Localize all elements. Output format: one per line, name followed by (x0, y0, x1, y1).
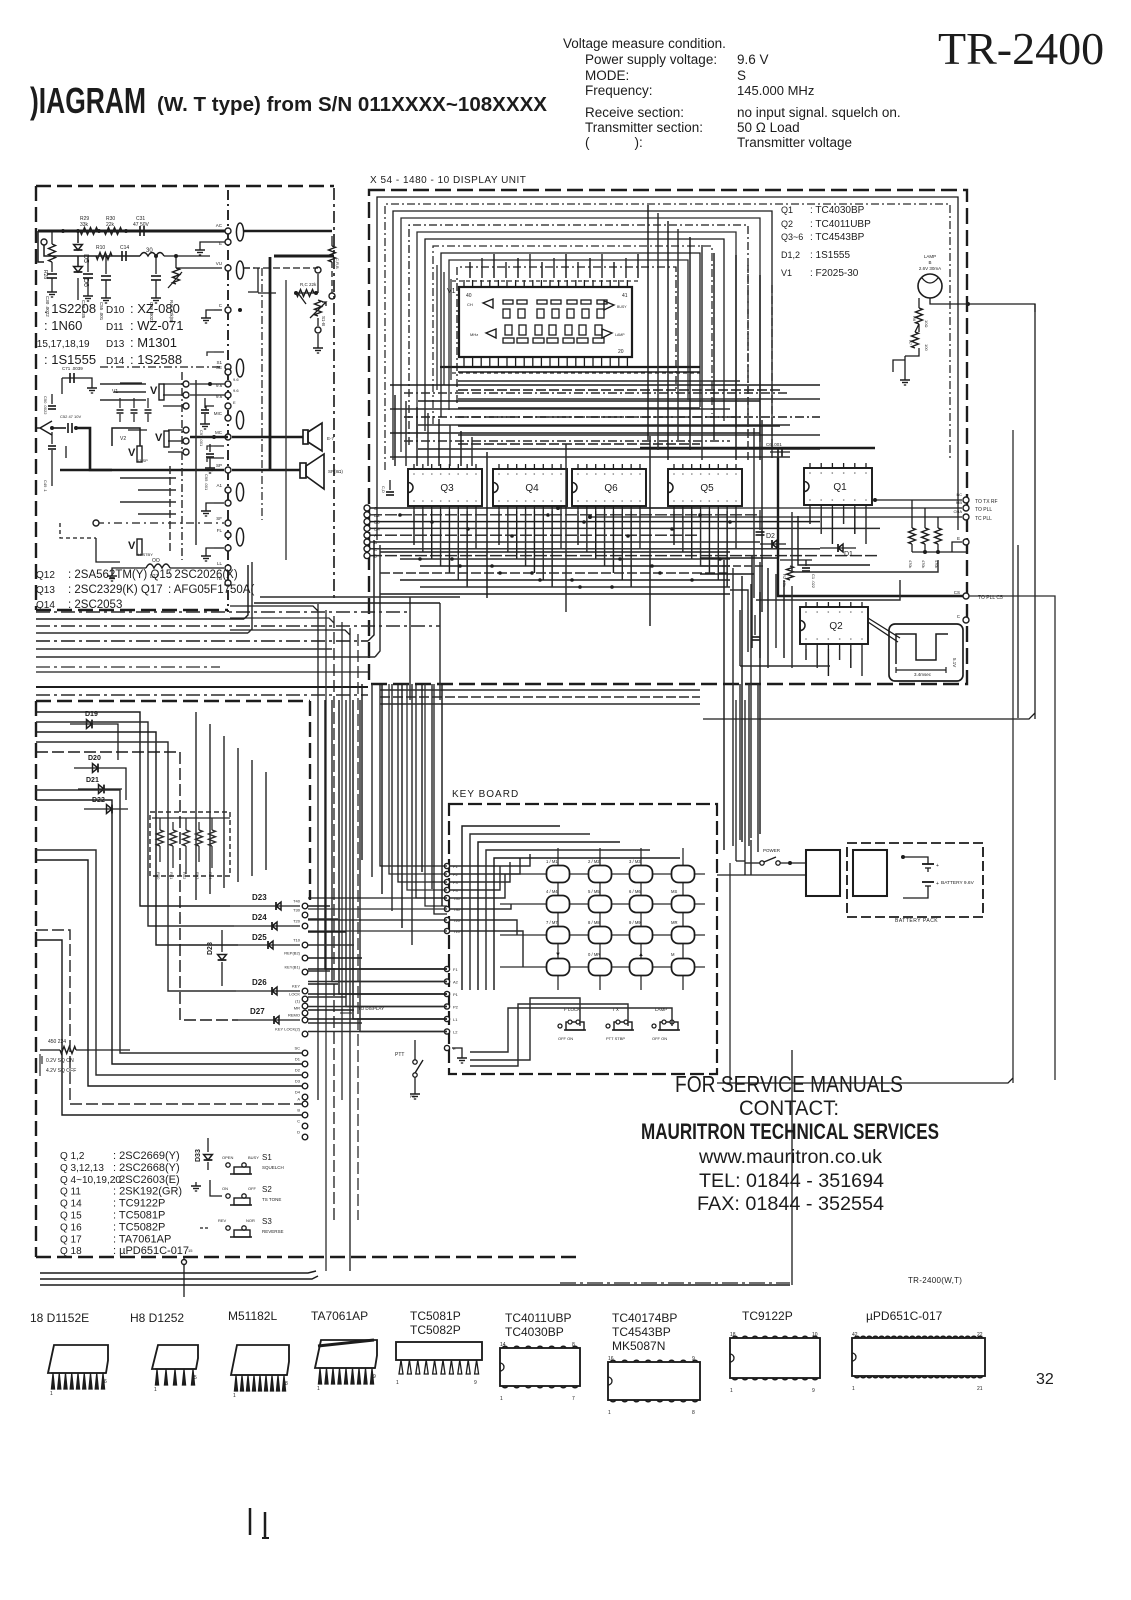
svg-text:B: B (297, 1108, 300, 1113)
svg-text:°: ° (726, 473, 728, 479)
svg-text:OO: OO (152, 558, 160, 564)
wire row to terminal VU (176, 267, 222, 269)
section A right dash-dot border (333, 188, 335, 600)
speaker symbol (300, 463, 306, 478)
svg-text:KEY(B1): KEY(B1) (284, 965, 300, 970)
svg-text:www.mauritron.co.uk: www.mauritron.co.uk (698, 1147, 883, 1168)
svg-text:40: 40 (466, 293, 472, 299)
junction dots on supply (61, 229, 65, 233)
resistor vertical (172, 822, 174, 830)
svg-text:: 2SC2026(X): : 2SC2026(X) (168, 569, 238, 581)
svg-text:F1: F1 (453, 967, 458, 972)
lamp branch left (905, 348, 919, 356)
wire main supply thick (38, 230, 228, 233)
svg-text:BATTERY 9.6V: BATTERY 9.6V (941, 880, 975, 886)
svg-text:: 2SC2053: : 2SC2053 (68, 599, 122, 611)
svg-text:8: 8 (572, 1342, 575, 1348)
vertical stub below box (183, 1257, 185, 1297)
registration marks (249, 1508, 252, 1535)
svg-text:°: ° (560, 473, 562, 479)
key button 5 / M5 (589, 896, 612, 913)
svg-text:C,R,B: C,R,B (335, 258, 340, 269)
package SIP TA7061AP with tab (315, 1340, 377, 1368)
svg-text:TS TONE: TS TONE (262, 1197, 281, 1202)
waveform time arrows (896, 667, 946, 673)
svg-text:°: ° (604, 500, 606, 506)
power feed wires from top (735, 700, 737, 861)
svg-text:°: ° (831, 499, 833, 505)
svg-text:°: ° (431, 473, 433, 479)
svg-text:6 / M6: 6 / M6 (629, 889, 641, 894)
resistor R6 below lamp (918, 298, 920, 308)
svg-text:°: ° (854, 472, 856, 478)
svg-text:°: ° (431, 500, 433, 506)
svg-text:°: ° (805, 638, 807, 644)
svg-text:°: ° (717, 473, 719, 479)
svg-text:TC4030BP: TC4030BP (505, 1325, 564, 1339)
horizontals above Q2 (700, 557, 778, 559)
resistor vertical (159, 818, 161, 830)
svg-text:C71 .0039: C71 .0039 (62, 366, 83, 371)
svg-text:D10: D10 (106, 305, 125, 316)
svg-text:°: ° (466, 473, 468, 479)
svg-text:TO TX RF: TO TX RF (975, 499, 998, 505)
svg-text:Q 14: Q 14 (60, 1199, 82, 1210)
svg-text:▲: ▲ (638, 952, 644, 958)
wire AC to right (243, 230, 332, 233)
svg-text:°: ° (475, 500, 477, 506)
S switch wires (210, 1180, 222, 1196)
display mesh dash rows lower (390, 384, 820, 386)
terminal column A-D (302, 1101, 308, 1107)
section A misc terminals (207, 352, 214, 356)
svg-text:CONTACT:: CONTACT: (739, 1097, 839, 1120)
horizontal wire through service text (717, 1078, 1013, 1083)
svg-text:L2: L2 (453, 1030, 458, 1035)
upper horizontals into display (260, 596, 460, 598)
key button 3 / M3 (630, 866, 653, 883)
svg-text:°: ° (850, 611, 852, 617)
svg-text:NOR: NOR (246, 1218, 255, 1223)
svg-text:C14: C14 (120, 245, 129, 251)
connector oval VU (236, 261, 243, 279)
wire to CS terminal (969, 596, 1055, 1080)
svg-text:°: ° (839, 638, 841, 644)
svg-text:: µPD651C-017: : µPD651C-017 (113, 1245, 189, 1257)
svg-text:AC: AC (216, 223, 223, 228)
svg-text:°: ° (498, 473, 500, 479)
svg-text:+: + (936, 863, 939, 869)
small RC cluster under D1 (787, 566, 794, 580)
svg-text:: 1S1555: : 1S1555 (810, 250, 850, 261)
right edge terminals (963, 497, 969, 503)
capacitor C95 (209, 444, 211, 452)
svg-text:D: D (297, 1130, 300, 1135)
svg-text:D25: D25 (252, 933, 267, 942)
svg-text:18: 18 (730, 1332, 736, 1338)
svg-text:7: 7 (572, 1396, 575, 1402)
svg-text:: TC4011UBP: : TC4011UBP (810, 219, 871, 230)
svg-text:5 / M5: 5 / M5 (588, 889, 600, 894)
lamp wire right (930, 298, 1035, 312)
svg-text:°: ° (457, 500, 459, 506)
svg-text:: AFG05F1750A(: : AFG05F1750A( (168, 584, 254, 596)
svg-text:°: ° (533, 473, 535, 479)
svg-text:8 / M8: 8 / M8 (588, 920, 600, 925)
svg-text:D28: D28 (207, 942, 214, 955)
key button 7 / M7 (547, 927, 570, 944)
svg-text:°: ° (708, 500, 710, 506)
inner vertical drop wires (469, 262, 471, 278)
package SIP D1152E (48, 1345, 108, 1373)
svg-text:L1: L1 (453, 1017, 458, 1022)
svg-text:°: ° (525, 500, 527, 506)
right vertical pair to service area (1012, 430, 1014, 1083)
svg-text:C,D: C,D (381, 486, 386, 493)
key button ▲ (630, 959, 653, 976)
wires from left terminals to keyboard T row (308, 897, 447, 899)
right bus wires (875, 499, 962, 501)
svg-text:C1 .022: C1 .022 (811, 574, 816, 589)
wires terminals to trunk (308, 905, 330, 907)
package DIP42 (852, 1338, 985, 1376)
svg-text:1: 1 (608, 1410, 611, 1416)
right long wire down from lamp (1034, 304, 1036, 719)
driver IC Q5 (668, 469, 742, 506)
svg-text:°: ° (422, 500, 424, 506)
oval FL (236, 528, 243, 546)
middle band long horizontals (36, 611, 410, 613)
receiver unit dashed border bottom (36, 609, 228, 611)
LCD right arrow row1 (604, 301, 614, 310)
LCD left arrow row2 (486, 329, 496, 338)
svg-text:: WZ-071: : WZ-071 (130, 318, 183, 333)
svg-text:°: ° (700, 473, 702, 479)
key button 1 / M1 (547, 866, 570, 883)
svg-text:S2: S2 (262, 1185, 272, 1194)
svg-text:°: ° (831, 472, 833, 478)
svg-text:°: ° (440, 473, 442, 479)
svg-text:30: 30 (146, 248, 153, 254)
svg-text:Q 3,12,13: Q 3,12,13 (60, 1163, 104, 1174)
svg-text:41: 41 (622, 293, 628, 299)
svg-text:D20: D20 (88, 755, 101, 762)
terminal E2 (225, 403, 231, 409)
svg-text:TC9122P: TC9122P (742, 1309, 793, 1323)
battery cells symbol (922, 863, 934, 865)
capacitor C31 (139, 226, 141, 236)
svg-text:42: 42 (852, 1332, 858, 1338)
resistor network R3 R4 R5 (911, 518, 913, 528)
display inner loops extra (436, 265, 438, 390)
svg-text:TC4543BP: TC4543BP (612, 1325, 671, 1339)
svg-text:1: 1 (852, 1386, 855, 1392)
middle band corner risers (244, 565, 248, 619)
svg-text:450 224: 450 224 (48, 1039, 66, 1045)
key button 8 / M8 (589, 927, 612, 944)
svg-text:14: 14 (500, 1342, 506, 1348)
svg-text:32: 32 (1036, 1371, 1054, 1388)
svg-text:(W. T type) from S/N 011XXXX~1: (W. T type) from S/N 011XXXX~108XXXX (157, 94, 548, 116)
long bus lines to display (36, 671, 368, 673)
svg-text:TC5082P: TC5082P (410, 1323, 461, 1337)
Q2 bottom wires (805, 649, 807, 660)
svg-text:OFF ON: OFF ON (558, 1036, 573, 1041)
waveform scope box (889, 624, 963, 681)
svg-text:°: ° (595, 473, 597, 479)
terminal E bottom (444, 1045, 449, 1050)
package SIP TC5081P (396, 1342, 482, 1360)
svg-text:MB: MB (956, 500, 962, 505)
wire mic chain thick (76, 428, 90, 446)
resistor R right top (331, 236, 333, 246)
svg-text:SQUELCH: SQUELCH (262, 1165, 284, 1170)
transistor V lead row y=256 (44, 242, 140, 256)
dashed box around resistors (150, 812, 230, 876)
wires keyboard to power (717, 874, 745, 876)
key button 9 / M9 (630, 927, 653, 944)
verticals through IC row gaps (486, 452, 488, 598)
svg-text:6: 6 (104, 1379, 107, 1385)
svg-text:: XZ-080: : XZ-080 (130, 301, 180, 316)
svg-text:V2: V2 (120, 436, 126, 442)
svg-text:°: ° (809, 499, 811, 505)
svg-text:D2: D2 (766, 533, 775, 540)
svg-text:SP: SP (216, 463, 222, 468)
svg-text:°: ° (816, 611, 818, 617)
svg-text:4 / M4: 4 / M4 (546, 889, 558, 894)
svg-text:V: V (155, 432, 163, 444)
svg-text:22k: 22k (106, 222, 115, 228)
svg-text:CS: CS (954, 590, 960, 595)
svg-text:KEY BOARD: KEY BOARD (452, 789, 519, 800)
resistor R10 (96, 253, 112, 260)
wire loop around Q1 lower (792, 512, 938, 572)
IC Q2 (800, 607, 868, 644)
svg-text:D24: D24 (252, 913, 267, 922)
svg-text:D27: D27 (250, 1007, 265, 1016)
svg-text:E: E (233, 400, 236, 405)
vertical dash line mid column (261, 268, 263, 520)
svg-text:0 / MR: 0 / MR (588, 952, 600, 957)
svg-text:C52 47 10V: C52 47 10V (60, 414, 81, 419)
package DIP16 (608, 1362, 700, 1400)
svg-text:E: E (957, 536, 960, 541)
svg-text:°: ° (413, 473, 415, 479)
svg-text:°: ° (448, 500, 450, 506)
capacitor C51 (51, 432, 53, 444)
svg-text:MAURITRON TECHNICAL SERVICES: MAURITRON TECHNICAL SERVICES (641, 1119, 939, 1144)
svg-text:1: 1 (50, 1391, 53, 1397)
dash-dot wire under service text (560, 1282, 790, 1284)
svg-text:°: ° (673, 500, 675, 506)
svg-text:Q 15: Q 15 (60, 1211, 82, 1222)
svg-text:B: B (928, 260, 931, 265)
svg-text:20: 20 (618, 349, 624, 355)
svg-text:TC5081P: TC5081P (410, 1309, 461, 1323)
terminal C right (963, 617, 969, 623)
control unit dashed border left (35, 701, 37, 1257)
svg-text:Transmitter voltage: Transmitter voltage (737, 135, 852, 150)
svg-text:°: ° (612, 500, 614, 506)
svg-text:REP(B2): REP(B2) (284, 951, 300, 956)
LCD digits row1 (503, 300, 513, 304)
key button 0 / MR (589, 959, 612, 976)
svg-text:°: ° (516, 473, 518, 479)
mesh horizontal stubs (458, 371, 700, 373)
svg-text:°: ° (577, 473, 579, 479)
svg-text:8: 8 (692, 1410, 695, 1416)
svg-text:Transmitter section:: Transmitter section: (585, 120, 703, 135)
svg-text:P2: P2 (453, 1005, 459, 1010)
section B nested corner wires (36, 712, 230, 906)
svg-text:Q 18: Q 18 (60, 1246, 82, 1257)
vertical bundle left of Q2 (751, 556, 753, 648)
svg-text:LOCK: LOCK (289, 992, 300, 997)
bundle display to power area (723, 560, 725, 850)
regulator box (806, 850, 840, 896)
svg-text:°: ° (850, 638, 852, 644)
svg-text:TC40174BP: TC40174BP (612, 1311, 677, 1325)
vertical line mid column 2 (285, 280, 287, 560)
svg-text:: 2SC2669(Y): : 2SC2669(Y) (113, 1150, 180, 1162)
slide switch body (614, 1022, 632, 1030)
wire V3 loop thick (90, 446, 112, 470)
svg-text:33k: 33k (80, 222, 89, 228)
svg-text:TC4011UBP: TC4011UBP (505, 1311, 571, 1325)
svg-text:D3: D3 (295, 1079, 301, 1084)
LCD top dashed bus (452, 280, 640, 282)
key button blank (672, 866, 695, 883)
svg-text:°: ° (612, 473, 614, 479)
svg-text:°: ° (525, 473, 527, 479)
LCD display module V1 (459, 287, 632, 357)
IC Q1 (804, 468, 872, 505)
section B inner vertical drops (195, 712, 197, 900)
display vertical bundle right of LCD (735, 255, 737, 460)
connector oval AC (236, 223, 243, 241)
V1 stage stub rows (100, 383, 146, 385)
package SIP D1252 (152, 1345, 198, 1369)
svg-text:REMO: REMO (288, 1013, 300, 1018)
svg-text:470k: 470k (908, 560, 912, 568)
key button 2 / M2 (589, 866, 612, 883)
resistor R29 (80, 228, 98, 235)
svg-text:S: S (737, 68, 746, 83)
trunk connect corners (230, 606, 318, 611)
svg-text:P1: P1 (453, 992, 459, 997)
terminal E3 (225, 545, 231, 551)
svg-text:°: ° (542, 473, 544, 479)
svg-text:BC: BC (956, 492, 962, 497)
svg-text:TA7061AP: TA7061AP (311, 1309, 368, 1323)
svg-text:10: 10 (812, 1332, 818, 1338)
svg-text:47 50V: 47 50V (133, 222, 150, 228)
svg-text:Q2: Q2 (829, 621, 843, 632)
IC bottom drop wires (413, 511, 415, 545)
vertical wire through service text (791, 1050, 793, 1285)
terminal column SC-D4 (302, 1050, 308, 1056)
svg-text:Q12: Q12 (36, 570, 55, 581)
terminal SP (225, 467, 231, 473)
svg-text:3.4msec: 3.4msec (914, 672, 932, 677)
svg-text:V: V (128, 447, 136, 459)
package DIP14 (500, 1348, 580, 1386)
svg-text:+: + (936, 881, 939, 887)
terminal MC (225, 434, 231, 440)
svg-text:°: ° (820, 499, 822, 505)
svg-text:V: V (128, 540, 136, 552)
resistor R28 vertical (51, 231, 53, 244)
svg-text:D21: D21 (86, 777, 99, 784)
right long wire horizontal return (703, 713, 1035, 719)
keyboard internal wire bends (450, 854, 530, 866)
svg-text:M51182L: M51182L (228, 1309, 277, 1323)
svg-text:°: ° (551, 500, 553, 506)
Q1 bottom pin drops (809, 510, 811, 524)
svg-text:V: V (150, 385, 158, 397)
svg-text:°: ° (865, 499, 867, 505)
svg-text:Q5: Q5 (700, 483, 714, 494)
svg-text:no input signal. squelch on.: no input signal. squelch on. (737, 105, 901, 120)
horizontal bus left-middle (thin) (36, 666, 220, 668)
svg-text:Q6: Q6 (604, 483, 618, 494)
svg-text:C: C (297, 1119, 300, 1124)
svg-text:D14: D14 (106, 356, 125, 367)
svg-text:( ):: ( ): (585, 135, 643, 150)
section A stub rows (120, 477, 176, 479)
svg-text:°: ° (448, 473, 450, 479)
svg-text:MR: MR (671, 920, 678, 925)
svg-text:VU: VU (216, 261, 222, 266)
svg-text:D11: D11 (106, 322, 124, 333)
terminal MIC (225, 415, 231, 421)
svg-text:Q1: Q1 (833, 482, 847, 493)
ear speaker (303, 430, 308, 444)
svg-text:Voltage measure condition.: Voltage measure condition. (563, 36, 726, 51)
svg-text:°: ° (717, 500, 719, 506)
svg-text:V1: V1 (112, 389, 118, 395)
svg-text:°: ° (457, 473, 459, 479)
svg-text:C97 .001: C97 .001 (199, 430, 204, 447)
svg-text:MS: MS (671, 889, 677, 894)
key button 6 / M6 (630, 896, 653, 913)
svg-text:A: A (297, 1097, 300, 1102)
svg-text:: TC5081P: : TC5081P (113, 1210, 165, 1222)
coil L27 (146, 564, 170, 568)
svg-text:MIC: MIC (214, 411, 223, 416)
LCD bottom pin ticks (463, 357, 465, 366)
svg-text:D1: D1 (295, 1057, 301, 1062)
capacitor top of Q1 (770, 451, 790, 453)
svg-text:: TC4543BP: : TC4543BP (810, 232, 865, 243)
oval A1 (236, 483, 243, 501)
svg-text:µPD651C-017: µPD651C-017 (866, 1309, 943, 1323)
svg-text:BUSY: BUSY (248, 1155, 259, 1160)
svg-text:16: 16 (608, 1356, 614, 1362)
terminal AC (225, 228, 231, 234)
capacitor C8 at Q3 left (389, 480, 391, 490)
svg-text:D4: D4 (295, 1090, 301, 1095)
svg-text:15: 15 (188, 1248, 193, 1253)
svg-text:°: ° (843, 472, 845, 478)
svg-text:2.6V 30mA: 2.6V 30mA (919, 266, 941, 271)
svg-text:Q3: Q3 (440, 483, 454, 494)
svg-text:T30: T30 (293, 908, 301, 913)
svg-text:LAMP: LAMP (615, 333, 625, 337)
svg-text:. 1S2208: . 1S2208 (44, 301, 96, 316)
LCD top pin ticks (463, 280, 465, 287)
